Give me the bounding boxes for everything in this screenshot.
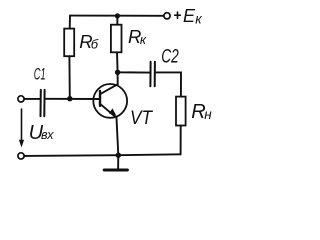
node junction top rail at Rk bbox=[115, 13, 120, 18]
svg-text:VT: VT bbox=[130, 108, 153, 129]
ground stub bbox=[117, 155, 119, 169]
terminal +Ek bbox=[164, 13, 170, 19]
svg-text:к: к bbox=[140, 32, 147, 47]
wire top rail bbox=[70, 15, 164, 17]
node base junction bbox=[67, 96, 72, 101]
transistor VT collector stroke bbox=[101, 72, 118, 94]
wire collector node to C2 bbox=[118, 71, 150, 73]
wire Rk bottom to collector node bbox=[116, 52, 119, 72]
resistor Rk bbox=[111, 25, 122, 53]
capacitor C2 bbox=[150, 62, 155, 86]
wire Rn bottom to bottom rail bbox=[180, 126, 182, 155]
node ground junction bbox=[116, 153, 121, 158]
label plus of +Ek bbox=[175, 14, 181, 16]
svg-text:б: б bbox=[91, 37, 99, 52]
resistor Rb bbox=[64, 29, 74, 57]
ground bar bbox=[104, 169, 127, 172]
svg-text:х: х bbox=[46, 128, 54, 142]
arrow Uvx bbox=[21, 109, 23, 145]
svg-text:C1: C1 bbox=[34, 64, 46, 83]
svg-text:к: к bbox=[195, 12, 202, 27]
wire C1 to base bbox=[45, 98, 100, 100]
capacitor C1 bbox=[41, 90, 45, 116]
resistor Rn bbox=[176, 97, 186, 126]
terminal input bottom bbox=[18, 153, 24, 159]
svg-text:E: E bbox=[183, 6, 196, 26]
transistor VT base bar bbox=[99, 91, 101, 106]
transistor VT emitter arrow bbox=[109, 108, 117, 115]
wire Rb top drop bbox=[69, 16, 71, 29]
wire bottom rail bbox=[24, 154, 180, 156]
wire Rk top drop bbox=[116, 16, 118, 25]
svg-text:C2: C2 bbox=[161, 45, 179, 67]
node collector junction bbox=[115, 70, 120, 75]
terminal input top bbox=[18, 96, 24, 102]
wire C2 to Rn top bbox=[156, 72, 182, 96]
transistor VT emitter stroke bbox=[101, 104, 119, 155]
wire input to C1 bbox=[24, 98, 40, 100]
svg-text:н: н bbox=[204, 107, 212, 122]
transistor VT circle bbox=[93, 84, 127, 118]
wire Rb bottom to base node bbox=[68, 56, 70, 98]
